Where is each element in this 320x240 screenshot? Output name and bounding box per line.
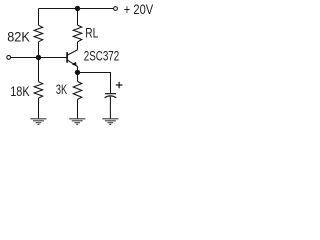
wire left branch upper (rail corner to 82K top) (38, 9, 40, 26)
wire capacitor to ground (109, 96, 111, 118)
wire top supply rail (39, 8, 114, 10)
transistor Q1 2SC372 base bar (66, 52, 68, 63)
capacitor C1 plus sign (116, 82, 123, 89)
wire 18K bottom lead to ground (38, 98, 40, 119)
capacitor C1 curved bottom plate (105, 96, 117, 98)
svg-text:3K: 3K (56, 82, 67, 97)
wire 82K bottom lead to base node (38, 42, 40, 58)
wire base node to 18K top (38, 58, 40, 82)
svg-text:18K: 18K (10, 84, 29, 99)
resistor R2 18K zigzag (34, 82, 43, 98)
svg-text:2SC372: 2SC372 (84, 49, 119, 64)
wire rail to RL top (77, 9, 79, 26)
wire base junction to transistor base (39, 57, 67, 59)
transistor Q1 emitter arrow (72, 62, 77, 67)
input terminal circle (7, 56, 11, 60)
wire emitter to emitter node (77, 66, 79, 72)
resistor R3 3K zigzag (73, 81, 82, 99)
junction dot base node (36, 55, 41, 60)
wire emitter node to 3K top (77, 72, 79, 81)
svg-text:+ 20V: + 20V (124, 2, 153, 17)
power terminal circle (114, 7, 118, 11)
capacitor C1 top plate (105, 93, 116, 95)
wire 3K bottom to ground (77, 99, 79, 118)
resistor R1 82K zigzag (34, 25, 43, 42)
wire input to base junction (11, 57, 39, 59)
transistor Q1 emitter lead (68, 60, 78, 66)
junction dot emitter node (75, 70, 80, 75)
junction dot on top rail (75, 6, 80, 11)
svg-text:RL: RL (85, 26, 98, 41)
ground symbol left (30, 119, 46, 125)
transistor Q1 collector lead (68, 50, 78, 55)
wire emitter node to capacitor (78, 73, 111, 94)
resistor RL zigzag (73, 25, 82, 42)
svg-text:82K: 82K (7, 29, 30, 44)
ground symbol middle (69, 119, 85, 125)
wire RL bottom to collector (77, 42, 79, 50)
ground symbol right (102, 119, 118, 125)
